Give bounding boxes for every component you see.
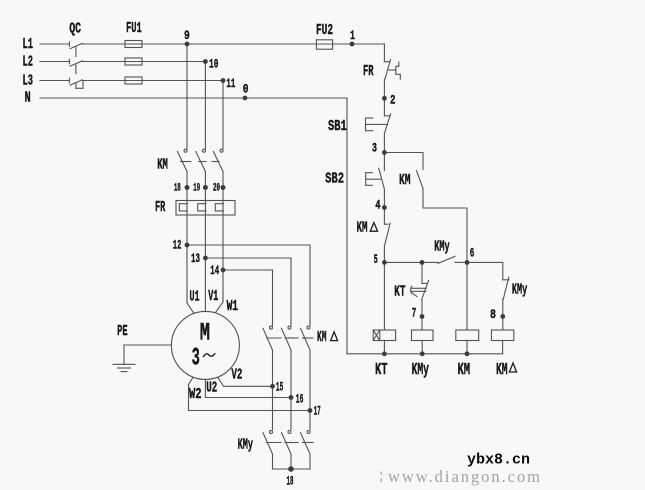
- contactor KMy NO contact: [438, 256, 455, 263]
- svg-text:18: 18: [287, 476, 294, 490]
- node 0: [243, 96, 248, 101]
- svg-text:SB2: SB2: [325, 170, 344, 187]
- svg-text:16: 16: [296, 392, 304, 407]
- contactor KM main contact 3: [220, 149, 223, 152]
- svg-text:KM: KM: [357, 219, 368, 236]
- svg-text:3: 3: [372, 142, 377, 156]
- contactor KMy contact 1: [270, 431, 273, 434]
- coil KMy: [412, 330, 434, 341]
- wire SB2 to node 4: [383, 189, 385, 224]
- svg-text:11: 11: [226, 77, 235, 92]
- contactor KMy linkage: [267, 442, 282, 444]
- wire coil bottoms to bus: [383, 341, 385, 354]
- contactor KM-delta contact 3: [307, 326, 310, 329]
- svg-text:KT: KT: [394, 284, 406, 301]
- svg-text:KM: KM: [458, 361, 471, 380]
- contactor KM-delta linkage: [267, 337, 282, 339]
- thermal relay FR heater box: [176, 201, 235, 216]
- wire W2 from motor to node 17: [189, 378, 311, 411]
- svg-text:7: 7: [412, 307, 417, 322]
- svg-text:M: M: [200, 320, 210, 348]
- node 16: [289, 395, 294, 400]
- svg-text:KMy: KMy: [434, 238, 450, 255]
- coil KM: [456, 330, 479, 341]
- node bus junction KMy: [420, 351, 425, 356]
- wire L2 phase line: [40, 61, 69, 63]
- motor M circle: [171, 311, 239, 379]
- fuse FU1 element 1: [125, 41, 142, 48]
- node 19 (terminal): [203, 185, 208, 190]
- wire delta contact 3 to node 17: [309, 350, 311, 430]
- thermal relay FR heater element 2: [198, 204, 206, 211]
- wire U1 into motor: [187, 303, 194, 314]
- wire KM to FR (phase B): [204, 172, 206, 312]
- wire node 5 to KT coil: [383, 262, 385, 330]
- node 18 star point: [288, 466, 294, 472]
- contactor KM-delta NC interlock contact: [384, 223, 388, 225]
- svg-text:15: 15: [276, 381, 283, 395]
- svg-text:12: 12: [173, 239, 182, 254]
- svg-text:W1: W1: [227, 298, 238, 315]
- wire node 6 to KM coil: [466, 262, 468, 330]
- node 10: [203, 59, 208, 64]
- svg-text:19: 19: [193, 182, 200, 195]
- thermal relay FR NC contact: [384, 61, 390, 63]
- node 8: [500, 314, 505, 319]
- svg-text:20: 20: [213, 182, 220, 194]
- thermal relay FR heater element 3: [215, 204, 223, 211]
- svg-text:10: 10: [209, 58, 218, 73]
- wire phase A drop (node 9 down): [186, 44, 188, 149]
- wire N neutral line: [40, 97, 347, 99]
- wire SB1 to node 3: [383, 133, 385, 171]
- svg-text:L1: L1: [23, 36, 33, 53]
- symbol triangle (KM delta contacts): [331, 332, 338, 341]
- svg-text:ybx8.cn: ybx8.cn: [467, 451, 530, 468]
- wire FR to node 2: [383, 79, 385, 116]
- symbol triangle (KM delta coil): [509, 363, 516, 372]
- contactor KM main linkage: [181, 161, 191, 163]
- ground PE wire: [124, 344, 171, 346]
- timer KT delayed contact: [421, 262, 423, 283]
- pushbutton SB1 (stop, NC): [384, 115, 390, 117]
- svg-text:www.diangon.com: www.diangon.com: [388, 467, 540, 486]
- node 4: [382, 205, 387, 210]
- wire N rail: [346, 98, 348, 354]
- svg-text:L3: L3: [23, 72, 33, 89]
- svg-text:5: 5: [374, 253, 378, 268]
- wire L3 phase line: [40, 80, 69, 82]
- coil KT (time relay): [373, 330, 395, 341]
- svg-text:L2: L2: [23, 53, 33, 70]
- node 15: [270, 384, 275, 389]
- switch QC pole 2: [68, 59, 70, 64]
- svg-text:3: 3: [192, 345, 200, 374]
- svg-text:2: 2: [390, 94, 396, 108]
- switch QC pole 1: [68, 42, 70, 47]
- wire node 12 to delta branch: [187, 245, 310, 325]
- svg-text:1: 1: [350, 30, 355, 44]
- wire phase B drop (node 10 down): [204, 62, 206, 149]
- node 13: [203, 256, 208, 261]
- wire L1 phase line: [40, 43, 69, 45]
- wire node 5 row: [384, 261, 438, 263]
- wire KM to FR (phase A): [186, 172, 188, 304]
- svg-text:18: 18: [174, 182, 181, 195]
- contactor KMy contact 2: [288, 431, 291, 434]
- svg-text:V2: V2: [231, 367, 242, 384]
- svg-text:KM: KM: [399, 172, 411, 189]
- node 20 (terminal): [221, 185, 226, 190]
- wire KM to FR (phase C): [222, 172, 224, 303]
- contactor KM-delta contact 2: [288, 326, 291, 329]
- wire V2 from motor to node 15: [218, 378, 273, 387]
- wire bottom control bus: [347, 353, 503, 355]
- node 2: [382, 96, 387, 101]
- motor text tilde: [204, 354, 215, 357]
- node bus junction KT: [382, 351, 387, 356]
- thermal relay FR heater element 1: [179, 204, 187, 211]
- wire star point bus: [272, 454, 274, 469]
- svg-text:0: 0: [243, 82, 249, 97]
- svg-text:U1: U1: [190, 288, 200, 305]
- node 5: [382, 260, 387, 265]
- contactor KMy NC interlock contact: [467, 262, 503, 279]
- svg-text:17: 17: [314, 405, 321, 419]
- contactor KM-delta contact 1: [270, 326, 273, 329]
- node 3: [382, 150, 387, 155]
- wire delta contact 1 to node 15: [272, 350, 274, 430]
- svg-text:FU1: FU1: [126, 20, 142, 37]
- fuse FU1 element 3: [125, 77, 142, 84]
- svg-text:13: 13: [191, 252, 200, 267]
- svg-text:KM: KM: [317, 329, 326, 347]
- svg-text:W2: W2: [189, 385, 202, 402]
- contactor KM main contact 1: [184, 149, 187, 152]
- fuse FU1 element 2: [125, 58, 142, 65]
- fuse FU2: [316, 40, 332, 49]
- svg-text:QC: QC: [69, 20, 81, 38]
- wire L1 corner into control circuit: [383, 44, 385, 62]
- contactor KM aux NO contact (self latch): [384, 153, 423, 170]
- node 9: [185, 42, 190, 47]
- contactor KM main contact 2: [203, 149, 206, 152]
- wire delta contact 2 to node 16: [290, 350, 292, 430]
- node 11: [221, 78, 226, 83]
- svg-text:FR: FR: [363, 63, 374, 80]
- svg-text:PE: PE: [117, 323, 128, 340]
- svg-text:KT: KT: [375, 361, 388, 380]
- switch QC linkage: [75, 48, 77, 57]
- node 7: [420, 314, 425, 319]
- contactor KMy contact 3: [307, 431, 310, 434]
- node 12: [185, 243, 190, 248]
- node 14: [221, 268, 226, 273]
- svg-text:KM: KM: [496, 362, 508, 380]
- wire U2 from motor to node 16: [205, 379, 291, 397]
- node 18 (terminal): [185, 185, 190, 190]
- svg-text:V1: V1: [208, 288, 218, 305]
- node bus junction KM: [465, 351, 470, 356]
- wire node 14 to delta branch: [223, 270, 273, 325]
- svg-text:9: 9: [184, 29, 190, 44]
- svg-text:8: 8: [490, 308, 496, 323]
- svg-text:14: 14: [210, 264, 219, 279]
- svg-text:KM: KM: [157, 156, 168, 173]
- node 17: [308, 408, 313, 413]
- svg-text:N: N: [25, 89, 31, 106]
- coil KM-delta: [491, 330, 513, 341]
- wire node 13 to delta branch: [205, 258, 291, 325]
- svg-text:KMy: KMy: [512, 281, 528, 298]
- node 6: [465, 260, 470, 265]
- watermark edge mark: [381, 472, 383, 475]
- svg-text:4: 4: [375, 199, 381, 213]
- wire phase C drop (node 11 down): [222, 81, 224, 149]
- node junction KT branch: [420, 260, 425, 265]
- svg-text:SB1: SB1: [328, 117, 347, 134]
- svg-text:U2: U2: [206, 379, 217, 396]
- svg-text:FR: FR: [155, 199, 166, 216]
- ground PE symbol: [113, 363, 135, 365]
- svg-text:KMy: KMy: [238, 436, 254, 453]
- wire W1 into motor: [216, 302, 224, 313]
- svg-text:KMy: KMy: [412, 362, 429, 380]
- node 1: [350, 42, 355, 47]
- svg-text:6: 6: [470, 247, 475, 262]
- symbol triangle (KM delta interlock): [370, 223, 377, 232]
- switch QC pole 3: [68, 78, 70, 83]
- pushbutton SB2 (start, NO): [379, 168, 385, 188]
- svg-text:FU2: FU2: [316, 22, 333, 39]
